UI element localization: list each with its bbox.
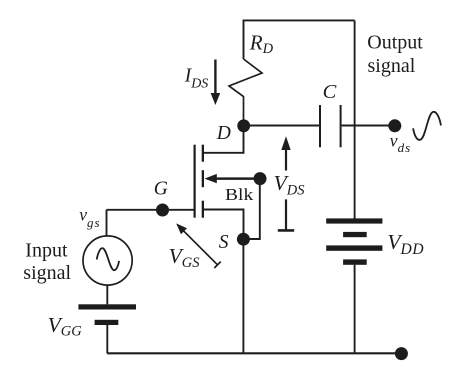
transistor M1 channel source bar [202,201,204,218]
V_GS arrow [176,223,221,268]
node G [156,204,169,217]
terminal v_ds [388,119,401,132]
svg-text:Blk: Blk [225,185,254,204]
source circle [83,236,132,285]
svg-text:signal: signal [368,55,416,77]
svg-text:RD: RD [249,30,274,57]
V_DS arrow up [281,136,290,170]
svg-text:C: C [323,81,337,103]
svg-text:Input: Input [25,240,68,262]
label Input signal [23,240,71,284]
wire S to bottom rail [242,239,244,353]
wire battery V_GG to bottom rail [106,325,108,353]
wire bottom rail [107,352,401,354]
output sine symbol [413,112,441,140]
svg-text:G: G [154,179,168,200]
resistor R_D [229,59,262,126]
svg-text:VGG: VGG [48,313,83,339]
transistor M1 channel bulk bar [202,170,204,187]
source sine [97,248,119,270]
wire capacitor to output terminal [342,125,395,127]
label Output signal [367,31,423,76]
wire G to input source [106,210,108,236]
transistor M1 gate bar [194,145,196,218]
battery V_GG [78,304,136,325]
svg-text:S: S [219,232,229,253]
wire D to drain [203,126,244,153]
svg-text:vds: vds [390,130,411,155]
svg-text:signal: signal [23,262,71,284]
transistor M1 channel drain bar [202,145,204,162]
current arrow I_DS [211,60,221,106]
node S [237,233,250,246]
bulk arrow [205,174,260,183]
wire source to battery V_GG [106,285,108,304]
svg-text:D: D [216,123,231,144]
wire top rail [244,20,355,59]
wire D to capacitor [244,125,320,127]
node D [237,119,250,132]
wire bulk to source [243,179,259,239]
battery V_DD [326,218,382,264]
capacitor C [320,105,341,147]
svg-text:vgs: vgs [79,205,100,230]
svg-text:Output: Output [367,31,423,53]
svg-text:VDD: VDD [387,230,424,258]
svg-text:VGS: VGS [169,244,201,271]
svg-text:VDS: VDS [274,171,306,199]
V_DS reference line [278,199,294,230]
svg-text:IDS: IDS [184,66,209,92]
node Blk [254,172,267,185]
wire source [203,210,244,240]
wire battery V_DD to bottom rail [354,265,356,354]
wire right rail [354,20,356,218]
wire gate [107,209,194,211]
terminal bottom right [395,347,408,360]
